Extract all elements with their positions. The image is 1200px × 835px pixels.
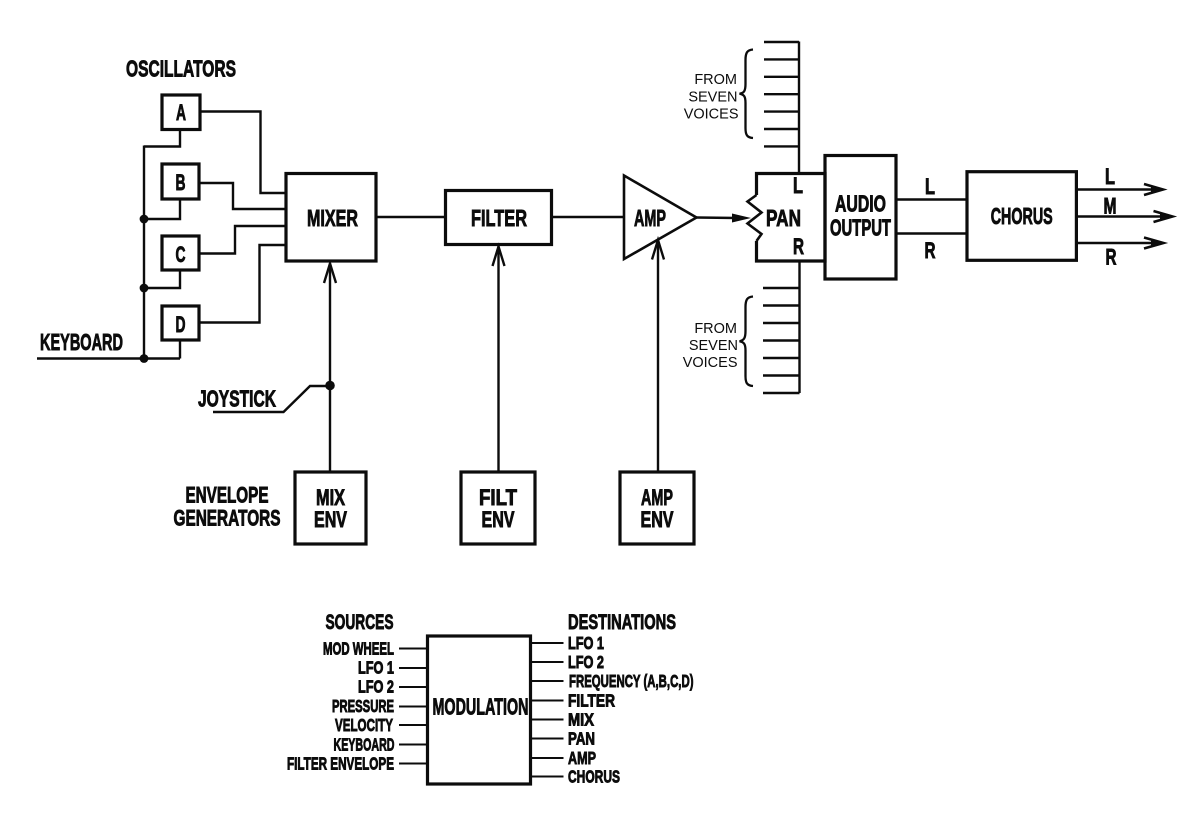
- keyboard wire: [37, 357, 180, 359]
- svg-text:ENV: ENV: [482, 507, 515, 532]
- svg-text:L: L: [793, 173, 803, 198]
- junction dot keyboard bus: [140, 354, 149, 363]
- svg-text:LFO 2: LFO 2: [568, 652, 604, 672]
- svg-text:SEVEN: SEVEN: [689, 338, 738, 354]
- svg-text:VOICES: VOICES: [684, 107, 739, 123]
- svg-text:SEVEN: SEVEN: [688, 90, 737, 106]
- oscillator D: [162, 306, 199, 340]
- svg-text:B: B: [176, 170, 186, 195]
- oscillator A: [162, 95, 200, 130]
- svg-text:L: L: [925, 174, 935, 199]
- svg-text:JOYSTICK: JOYSTICK: [198, 386, 276, 412]
- bus vertical wire: [143, 146, 145, 359]
- wire D to mixer: [199, 245, 286, 323]
- svg-text:D: D: [176, 312, 186, 337]
- svg-text:CHORUS: CHORUS: [568, 767, 620, 787]
- wire A bottom to bus: [144, 130, 180, 147]
- svg-text:AMP: AMP: [568, 748, 596, 768]
- wire D bottom to keyboard wire: [179, 340, 181, 359]
- svg-text:PRESSURE: PRESSURE: [332, 696, 394, 716]
- lower brace: [740, 297, 754, 387]
- block AMP ENV: [620, 472, 694, 544]
- svg-text:ENV: ENV: [641, 507, 674, 532]
- svg-text:LFO 1: LFO 1: [358, 658, 394, 678]
- dest PAN: [531, 738, 564, 740]
- block MIX ENV: [295, 472, 366, 544]
- upper voice ticks: [764, 42, 799, 146]
- wire chorus R output: [1076, 242, 1157, 244]
- wire C bottom to bus: [144, 270, 180, 288]
- svg-text:FILTER: FILTER: [568, 691, 615, 711]
- svg-text:GENERATORS: GENERATORS: [174, 506, 281, 531]
- svg-text:KEYBOARD: KEYBOARD: [40, 329, 123, 355]
- upper brace: [740, 50, 754, 139]
- dest FREQUENCY: [531, 680, 564, 682]
- svg-text:FILTER: FILTER: [471, 205, 527, 231]
- svg-text:PAN: PAN: [766, 205, 801, 231]
- svg-text:R: R: [1106, 245, 1117, 270]
- wire filter to amp: [552, 216, 625, 218]
- svg-text:MIXER: MIXER: [307, 205, 358, 231]
- dest FILTER: [531, 700, 564, 702]
- dest MIX: [531, 719, 564, 721]
- junction dot joystick: [325, 381, 335, 391]
- svg-text:SOURCES: SOURCES: [326, 611, 394, 634]
- svg-text:M: M: [1104, 194, 1117, 219]
- svg-text:FREQUENCY (A,B,C,D): FREQUENCY (A,B,C,D): [569, 671, 694, 691]
- upper voice bus wire: [798, 42, 800, 174]
- wire C to mixer: [199, 226, 286, 254]
- dest LFO 2: [531, 661, 564, 663]
- svg-text:ENVELOPE: ENVELOPE: [186, 483, 269, 508]
- svg-text:C: C: [176, 242, 186, 267]
- dest LFO 1: [531, 642, 564, 644]
- oscillator B: [162, 164, 199, 199]
- svg-text:LFO 1: LFO 1: [568, 633, 604, 653]
- op-amp AMP triangle: [624, 176, 697, 260]
- svg-text:FILTER ENVELOPE: FILTER ENVELOPE: [287, 754, 394, 774]
- wire B to mixer: [199, 183, 286, 209]
- svg-text:ENV: ENV: [314, 507, 347, 532]
- block MODULATION: [428, 636, 531, 784]
- svg-text:R: R: [793, 234, 804, 259]
- svg-text:VOICES: VOICES: [683, 355, 738, 371]
- wire B bottom to bus: [144, 199, 180, 219]
- svg-text:FROM: FROM: [694, 321, 737, 337]
- resistor zigzag: [748, 195, 762, 241]
- wire audio L to chorus: [896, 198, 967, 200]
- dest AMP: [531, 757, 564, 759]
- svg-text:FROM: FROM: [694, 72, 737, 88]
- label FROM SEVEN VOICES lower: [683, 321, 738, 371]
- svg-text:PAN: PAN: [568, 729, 595, 749]
- svg-text:LFO 2: LFO 2: [358, 677, 394, 697]
- svg-text:VELOCITY: VELOCITY: [335, 715, 393, 735]
- block CHORUS: [967, 172, 1076, 261]
- lower voice bus wire: [798, 261, 800, 393]
- block FILT ENV: [461, 472, 535, 544]
- joystick wire: [213, 386, 330, 412]
- dest CHORUS: [531, 776, 564, 778]
- svg-text:KEYBOARD: KEYBOARD: [334, 735, 395, 755]
- wire amp to pan: [697, 216, 738, 219]
- block AUDIO OUTPUT: [825, 156, 896, 280]
- junction dot bus B: [140, 215, 149, 224]
- wire audio R to chorus: [896, 232, 967, 234]
- oscillator C: [162, 236, 199, 270]
- wire mixer to filter: [376, 216, 445, 218]
- svg-text:L: L: [1105, 164, 1115, 189]
- svg-text:AUDIO: AUDIO: [835, 191, 886, 217]
- svg-text:CHORUS: CHORUS: [991, 203, 1053, 229]
- wire A to mixer: [200, 112, 286, 194]
- wire amp env to amp: [657, 240, 659, 472]
- svg-text:MODULATION: MODULATION: [433, 694, 529, 720]
- svg-text:OUTPUT: OUTPUT: [830, 215, 891, 241]
- svg-text:OSCILLATORS: OSCILLATORS: [126, 56, 236, 82]
- svg-text:MIX: MIX: [568, 710, 594, 730]
- svg-text:DESTINATIONS: DESTINATIONS: [568, 611, 676, 634]
- svg-text:R: R: [925, 238, 936, 263]
- label FROM SEVEN VOICES upper: [684, 72, 739, 123]
- wire chorus M output: [1076, 215, 1166, 217]
- lower voice ticks: [763, 288, 800, 393]
- wire mix env to mixer: [329, 264, 331, 473]
- potentiometer PAN box: [757, 174, 826, 262]
- block FILTER: [446, 191, 552, 245]
- wire filt env to filter: [497, 247, 499, 473]
- junction dot bus C: [140, 284, 149, 293]
- block MIXER: [286, 174, 376, 262]
- wire chorus L output: [1076, 188, 1157, 190]
- svg-text:AMP: AMP: [634, 205, 666, 231]
- svg-text:A: A: [176, 100, 186, 125]
- svg-text:MOD WHEEL: MOD WHEEL: [323, 639, 394, 659]
